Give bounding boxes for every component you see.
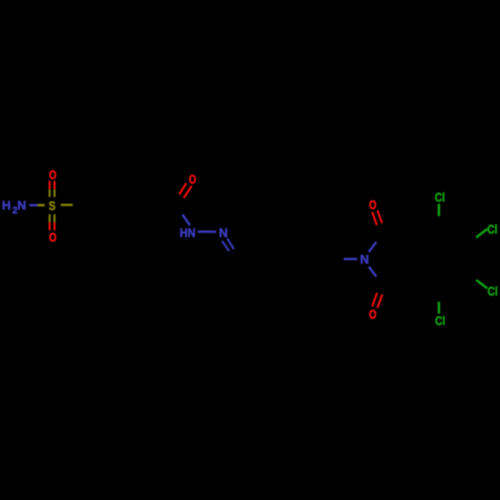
svg-text:O: O bbox=[369, 307, 377, 321]
svg-text:Cl: Cl bbox=[487, 223, 497, 237]
svg-text:H: H bbox=[2, 199, 11, 213]
bond C-N(H) bbox=[178, 202, 190, 225]
five membered imide ring C-C bonds (invisible) bbox=[382, 229, 414, 289]
double bond N=CH bbox=[222, 238, 240, 260]
double bond C=O top of imide bbox=[372, 210, 383, 228]
benzo ring of phthalimide (black, invisible) bbox=[414, 228, 465, 290]
bond C5-Cl upper right bbox=[464, 229, 487, 247]
bond N-N bbox=[198, 230, 216, 232]
double bond S=O bottom bbox=[50, 214, 55, 230]
svg-text:N: N bbox=[360, 253, 369, 267]
svg-text:O: O bbox=[49, 231, 57, 245]
double bond C=O (hydrazide carbonyl) bbox=[177, 183, 192, 202]
amine N label H2N bbox=[2, 199, 26, 217]
svg-text:HN: HN bbox=[180, 226, 196, 240]
benzene ring 1 (black, invisible on bg) bbox=[86, 177, 152, 234]
bond N-S bbox=[29, 204, 44, 206]
double bond S=O top bbox=[50, 181, 55, 197]
bond N-C(=O) top of imide bbox=[369, 229, 382, 252]
svg-text:Cl: Cl bbox=[435, 190, 445, 204]
bond CH-ring2 bbox=[241, 259, 273, 261]
svg-text:Cl: Cl bbox=[488, 285, 498, 299]
bond C4-Cl top bbox=[438, 204, 441, 228]
svg-text:S: S bbox=[49, 199, 56, 213]
svg-text:O: O bbox=[369, 198, 377, 212]
bond C6-Cl lower right bbox=[464, 271, 487, 289]
svg-text:O: O bbox=[189, 172, 197, 186]
svg-text:Cl: Cl bbox=[435, 314, 445, 328]
bond N-C(=O) bottom of imide bbox=[369, 267, 382, 290]
bond S-C(ring1) bbox=[61, 204, 86, 207]
bond C7-Cl bottom bbox=[438, 290, 441, 314]
double bond C=O bottom of imide bbox=[372, 290, 384, 308]
svg-text:N: N bbox=[219, 226, 228, 240]
benzene ring 2 (black, invisible on bg) bbox=[272, 234, 331, 285]
bond ring1-C(=O) bbox=[152, 201, 178, 206]
svg-text:N: N bbox=[17, 199, 26, 213]
svg-text:O: O bbox=[49, 168, 57, 182]
bond ring2-N(imide) bbox=[331, 258, 357, 260]
